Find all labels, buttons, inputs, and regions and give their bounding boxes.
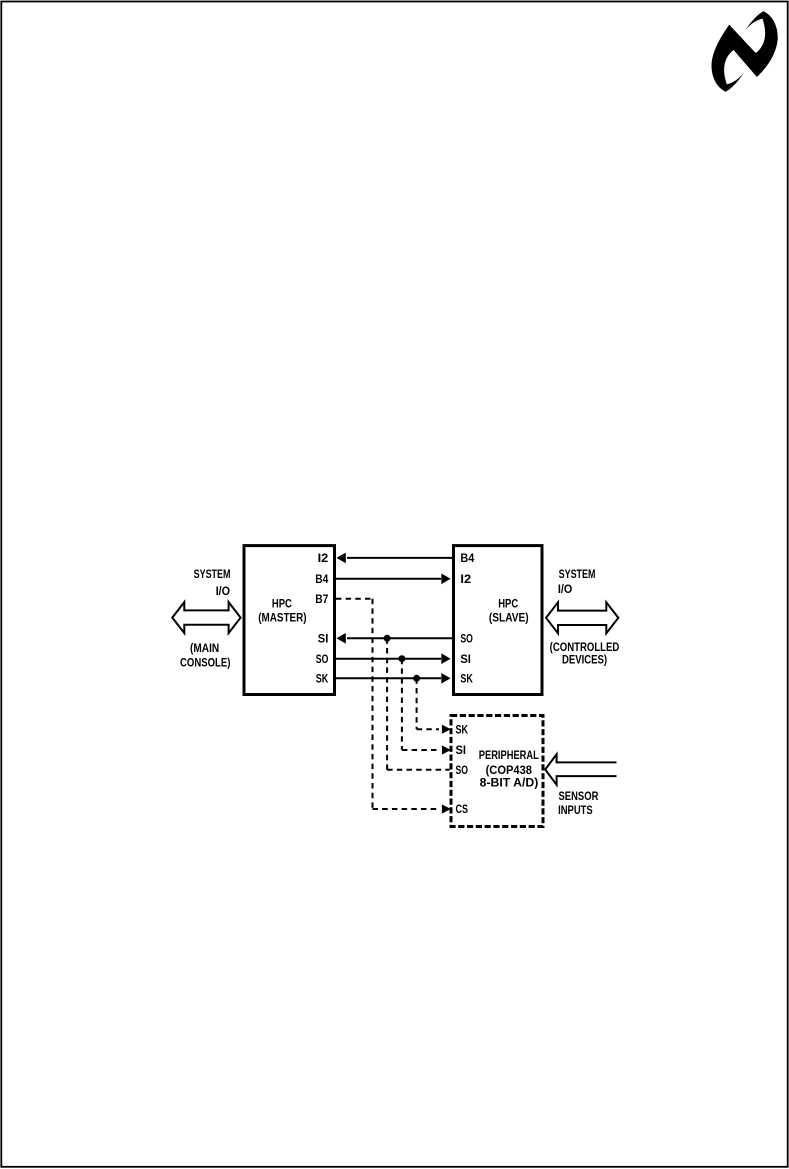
svg-text:HPC: HPC (498, 596, 518, 610)
svg-text:B4: B4 (315, 572, 328, 586)
svg-text:SO: SO (316, 652, 329, 666)
svg-text:SK: SK (460, 672, 473, 686)
svg-text:I/O: I/O (558, 582, 572, 596)
svg-text:SO: SO (460, 632, 473, 646)
svg-text:SK: SK (316, 672, 329, 686)
svg-text:PERIPHERAL: PERIPHERAL (479, 748, 539, 762)
svg-text:INPUTS: INPUTS (558, 803, 593, 817)
svg-text:I2: I2 (460, 572, 471, 586)
svg-text:8-BIT A/D): 8-BIT A/D) (480, 776, 539, 790)
svg-text:CONSOLE): CONSOLE) (180, 655, 230, 669)
svg-text:DEVICES): DEVICES) (562, 653, 607, 667)
svg-text:SYSTEM: SYSTEM (194, 567, 231, 581)
svg-text:HPC: HPC (272, 596, 292, 610)
svg-text:SK: SK (456, 722, 469, 736)
svg-text:SYSTEM: SYSTEM (559, 567, 596, 581)
svg-text:CS: CS (456, 802, 469, 816)
svg-text:SI: SI (318, 632, 329, 646)
svg-text:SENSOR: SENSOR (559, 789, 599, 803)
svg-text:(MAIN: (MAIN (190, 641, 219, 655)
svg-text:B4: B4 (460, 551, 474, 565)
svg-text:I/O: I/O (216, 584, 230, 598)
svg-text:SI: SI (460, 652, 471, 666)
svg-text:(SLAVE): (SLAVE) (489, 611, 529, 625)
svg-text:I2: I2 (318, 551, 329, 565)
svg-text:B7: B7 (315, 592, 328, 606)
svg-text:SO: SO (456, 763, 469, 777)
svg-text:SI: SI (456, 743, 467, 757)
svg-text:(MASTER): (MASTER) (258, 611, 306, 625)
